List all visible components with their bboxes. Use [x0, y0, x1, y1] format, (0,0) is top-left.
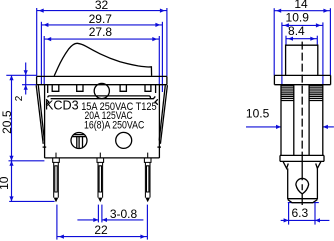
arrow 32 right: [160, 9, 165, 13]
dim 3-0.8 line left: [77, 219, 98, 221]
dim 3-0.8 ext right: [101, 205, 103, 223]
mounting wing left inner: [38, 85, 44, 140]
terminal block bottom chamfer: [288, 200, 318, 203]
arrow 6.3 right: [315, 218, 320, 222]
terminal 3 collar: [144, 158, 151, 162]
dim 14 ext left: [273, 8, 275, 75]
base plate bottom: [280, 160, 324, 162]
dim 32 ext right: [166, 8, 168, 76]
dim 8.4 ext right: [316, 36, 318, 45]
svg-text:10.5: 10.5: [246, 107, 270, 121]
terminal 2 blade left: [97, 162, 99, 197]
dim 6.3 ext right: [314, 203, 316, 225]
dim 27.8 ext right: [158, 36, 160, 85]
side view body inner left: [293, 85, 295, 156]
terminal block right side: [316, 168, 318, 199]
terminal tip datum line (side view): [288, 202, 319, 204]
arrow 22 right: [140, 235, 145, 239]
dim 22 ext right: [146, 205, 148, 240]
terminal 1 slot: [55, 166, 57, 192]
dim 6.3 ext left: [288, 203, 290, 225]
rocker actuator (front view): [54, 43, 151, 76]
dim 10.9 ext left: [281, 22, 283, 84]
label panel upper line: [48, 96, 151, 99]
svg-text:KCD3: KCD3: [45, 99, 79, 113]
housing top tab C: [120, 85, 126, 91]
dim 2 ext bottom: [22, 84, 37, 86]
arrow 10.5 left: [276, 125, 281, 129]
side view flange right edge: [330, 75, 332, 84]
side view flange bottom: [274, 84, 330, 86]
rib lines right block: [309, 86, 323, 101]
mounting wing left foot: [43, 146, 47, 148]
bezel flange front: top edge: [37, 75, 167, 77]
svg-text:20.5: 20.5: [0, 110, 14, 134]
centerline solid lower: [301, 155, 303, 205]
terminal 1 tip: [54, 198, 59, 203]
arrow 3-0.8 right: [102, 218, 107, 222]
arrow 10 bottom: [9, 196, 13, 201]
certification mark bar mid: [78, 137, 80, 149]
terminal 3 center tick: [147, 153, 149, 158]
housing corner rib right: [155, 85, 157, 93]
terminal block bottom line: [288, 198, 317, 200]
svg-text:6.3: 6.3: [291, 206, 308, 220]
terminal 3 blade right: [149, 162, 151, 197]
mounting wing left outer: [36, 85, 43, 144]
arrow 10 top: [9, 161, 13, 166]
side view rocker cap: [286, 45, 318, 75]
terminal 3 blade left: [144, 162, 146, 197]
side view flange top: [274, 74, 330, 76]
side view flange left edge: [273, 75, 275, 84]
arrow 20.5 bottom: [9, 156, 13, 161]
dim 3-0.8 ext left: [97, 205, 99, 223]
centerline dashed: [301, 42, 303, 155]
arrow 14 right: [323, 9, 328, 13]
housing corner rib left: [47, 85, 49, 93]
svg-text:14: 14: [294, 0, 308, 11]
arrow 8.4 left: [288, 37, 293, 41]
mounting wing right outer: [160, 85, 167, 144]
dim 29.7 ext left: [40, 22, 42, 85]
dim 22 line: [57, 236, 147, 238]
dim 10.9 ext right: [322, 22, 324, 84]
dim 10 ext bottom: [9, 200, 54, 202]
arrow 32 left: [39, 9, 44, 13]
dim 3-0.8 line right: [102, 219, 143, 221]
dim 10.5 line left: [246, 126, 281, 128]
housing right edge: [158, 85, 160, 158]
dim 27.8 ext left: [43, 36, 45, 85]
terminal block left side: [287, 168, 289, 199]
terminal 1 center tick: [55, 153, 57, 158]
base plate right edge: [323, 155, 325, 161]
terminal 3 slot: [147, 166, 149, 192]
bezel flange front: left edge: [36, 76, 38, 84]
arrow 8.4 right: [310, 37, 315, 41]
dim 20.5 ext bottom: [9, 160, 45, 162]
terminal 2 blade right: [102, 162, 104, 197]
arrow 22 left: [59, 235, 64, 239]
arrow 10.9 right: [316, 23, 321, 27]
side latch wedge right: [155, 99, 158, 104]
dim 2 ext top: [6, 74, 36, 76]
side latch wedge left: [46, 99, 49, 104]
bezel flange front: bottom edge: [37, 84, 167, 86]
bezel flange front: right edge: [166, 76, 168, 84]
dim 29.7 ext right: [161, 22, 163, 92]
certification mark chord lower: [72, 136, 85, 138]
side view body left edge: [280, 85, 282, 156]
dim 32 line: [37, 10, 167, 12]
rib lines left block: [281, 86, 294, 101]
terminal 2 collar: [97, 158, 104, 162]
svg-text:10: 10: [0, 176, 11, 190]
arrow 3-0.8 left: [93, 218, 98, 222]
terminal 3 tip: [145, 198, 150, 203]
dim 27.8 line: [44, 38, 159, 40]
terminal 2 center tick: [99, 153, 101, 158]
arrow 27.8 left: [46, 37, 51, 41]
arrow 14 left: [276, 9, 281, 13]
arrow 29.7 right: [155, 23, 160, 27]
terminal 2 tip: [98, 198, 103, 203]
arrow 10.5 right: [323, 125, 328, 129]
dim 8.4 line: [286, 38, 317, 40]
dim 2 vertical line: [25, 63, 27, 95]
housing left edge: [44, 85, 46, 158]
svg-text:16(8)A 250VAC: 16(8)A 250VAC: [84, 120, 144, 132]
housing bottom edge: [45, 157, 160, 159]
terminal 2 slot: [99, 166, 101, 192]
terminal 1 collar: [53, 158, 60, 162]
latch hook left: [283, 162, 288, 169]
arrow 20.5 top: [9, 75, 13, 80]
svg-text:32: 32: [95, 0, 109, 12]
mounting wing right foot: [157, 146, 161, 148]
arrow 10.9 left: [284, 23, 289, 27]
housing top tab D: [145, 85, 151, 91]
dim 8.4 ext left: [285, 36, 287, 45]
dim 14 line: [274, 10, 330, 12]
terminal 1 blade left: [53, 162, 55, 197]
dim 22 ext left: [56, 205, 58, 240]
arrow 2 top: [24, 70, 28, 75]
dim 10.9 line: [282, 24, 323, 26]
svg-text:22: 22: [94, 223, 108, 237]
arrow 27.8 right: [152, 37, 157, 41]
housing top tab A: [52, 85, 59, 91]
terminal hole droplet: [296, 178, 309, 193]
svg-text:10.9: 10.9: [286, 11, 310, 25]
dim 20.5 line: [11, 75, 13, 161]
terminal 1 blade right: [57, 162, 59, 197]
dim 10.5 line right: [323, 126, 334, 128]
certification circle right: [116, 132, 132, 148]
dim 14 ext right: [329, 8, 331, 75]
svg-text:3-0.8: 3-0.8: [110, 207, 138, 221]
svg-text:27.8: 27.8: [89, 25, 113, 39]
mounting wing right inner: [159, 85, 165, 140]
arrow 6.3 left: [284, 218, 289, 222]
svg-text:2: 2: [14, 95, 25, 101]
dim 6.3 line: [281, 219, 330, 221]
base plate left edge: [279, 155, 281, 161]
arrow 29.7 left: [43, 23, 48, 27]
svg-text:8.4: 8.4: [288, 24, 305, 38]
svg-text:29.7: 29.7: [89, 12, 113, 26]
dim 29.7 line: [41, 24, 162, 26]
housing top center boss circle: [94, 83, 109, 98]
certification mark bar left: [76, 137, 78, 149]
dim 10 line: [11, 161, 13, 202]
label panel lower line: [51, 96, 156, 98]
certification mark chord upper: [74, 134, 85, 136]
latch hook right: [316, 162, 321, 169]
certification circle left: [71, 133, 87, 149]
base plate top: [280, 154, 324, 156]
certification mark bar right: [82, 137, 84, 149]
dim 32 ext left: [36, 8, 38, 76]
side view body right edge: [322, 85, 324, 156]
side view body inner right: [308, 85, 310, 156]
housing top tab B: [77, 85, 83, 91]
arrow 2 bottom: [24, 85, 28, 90]
